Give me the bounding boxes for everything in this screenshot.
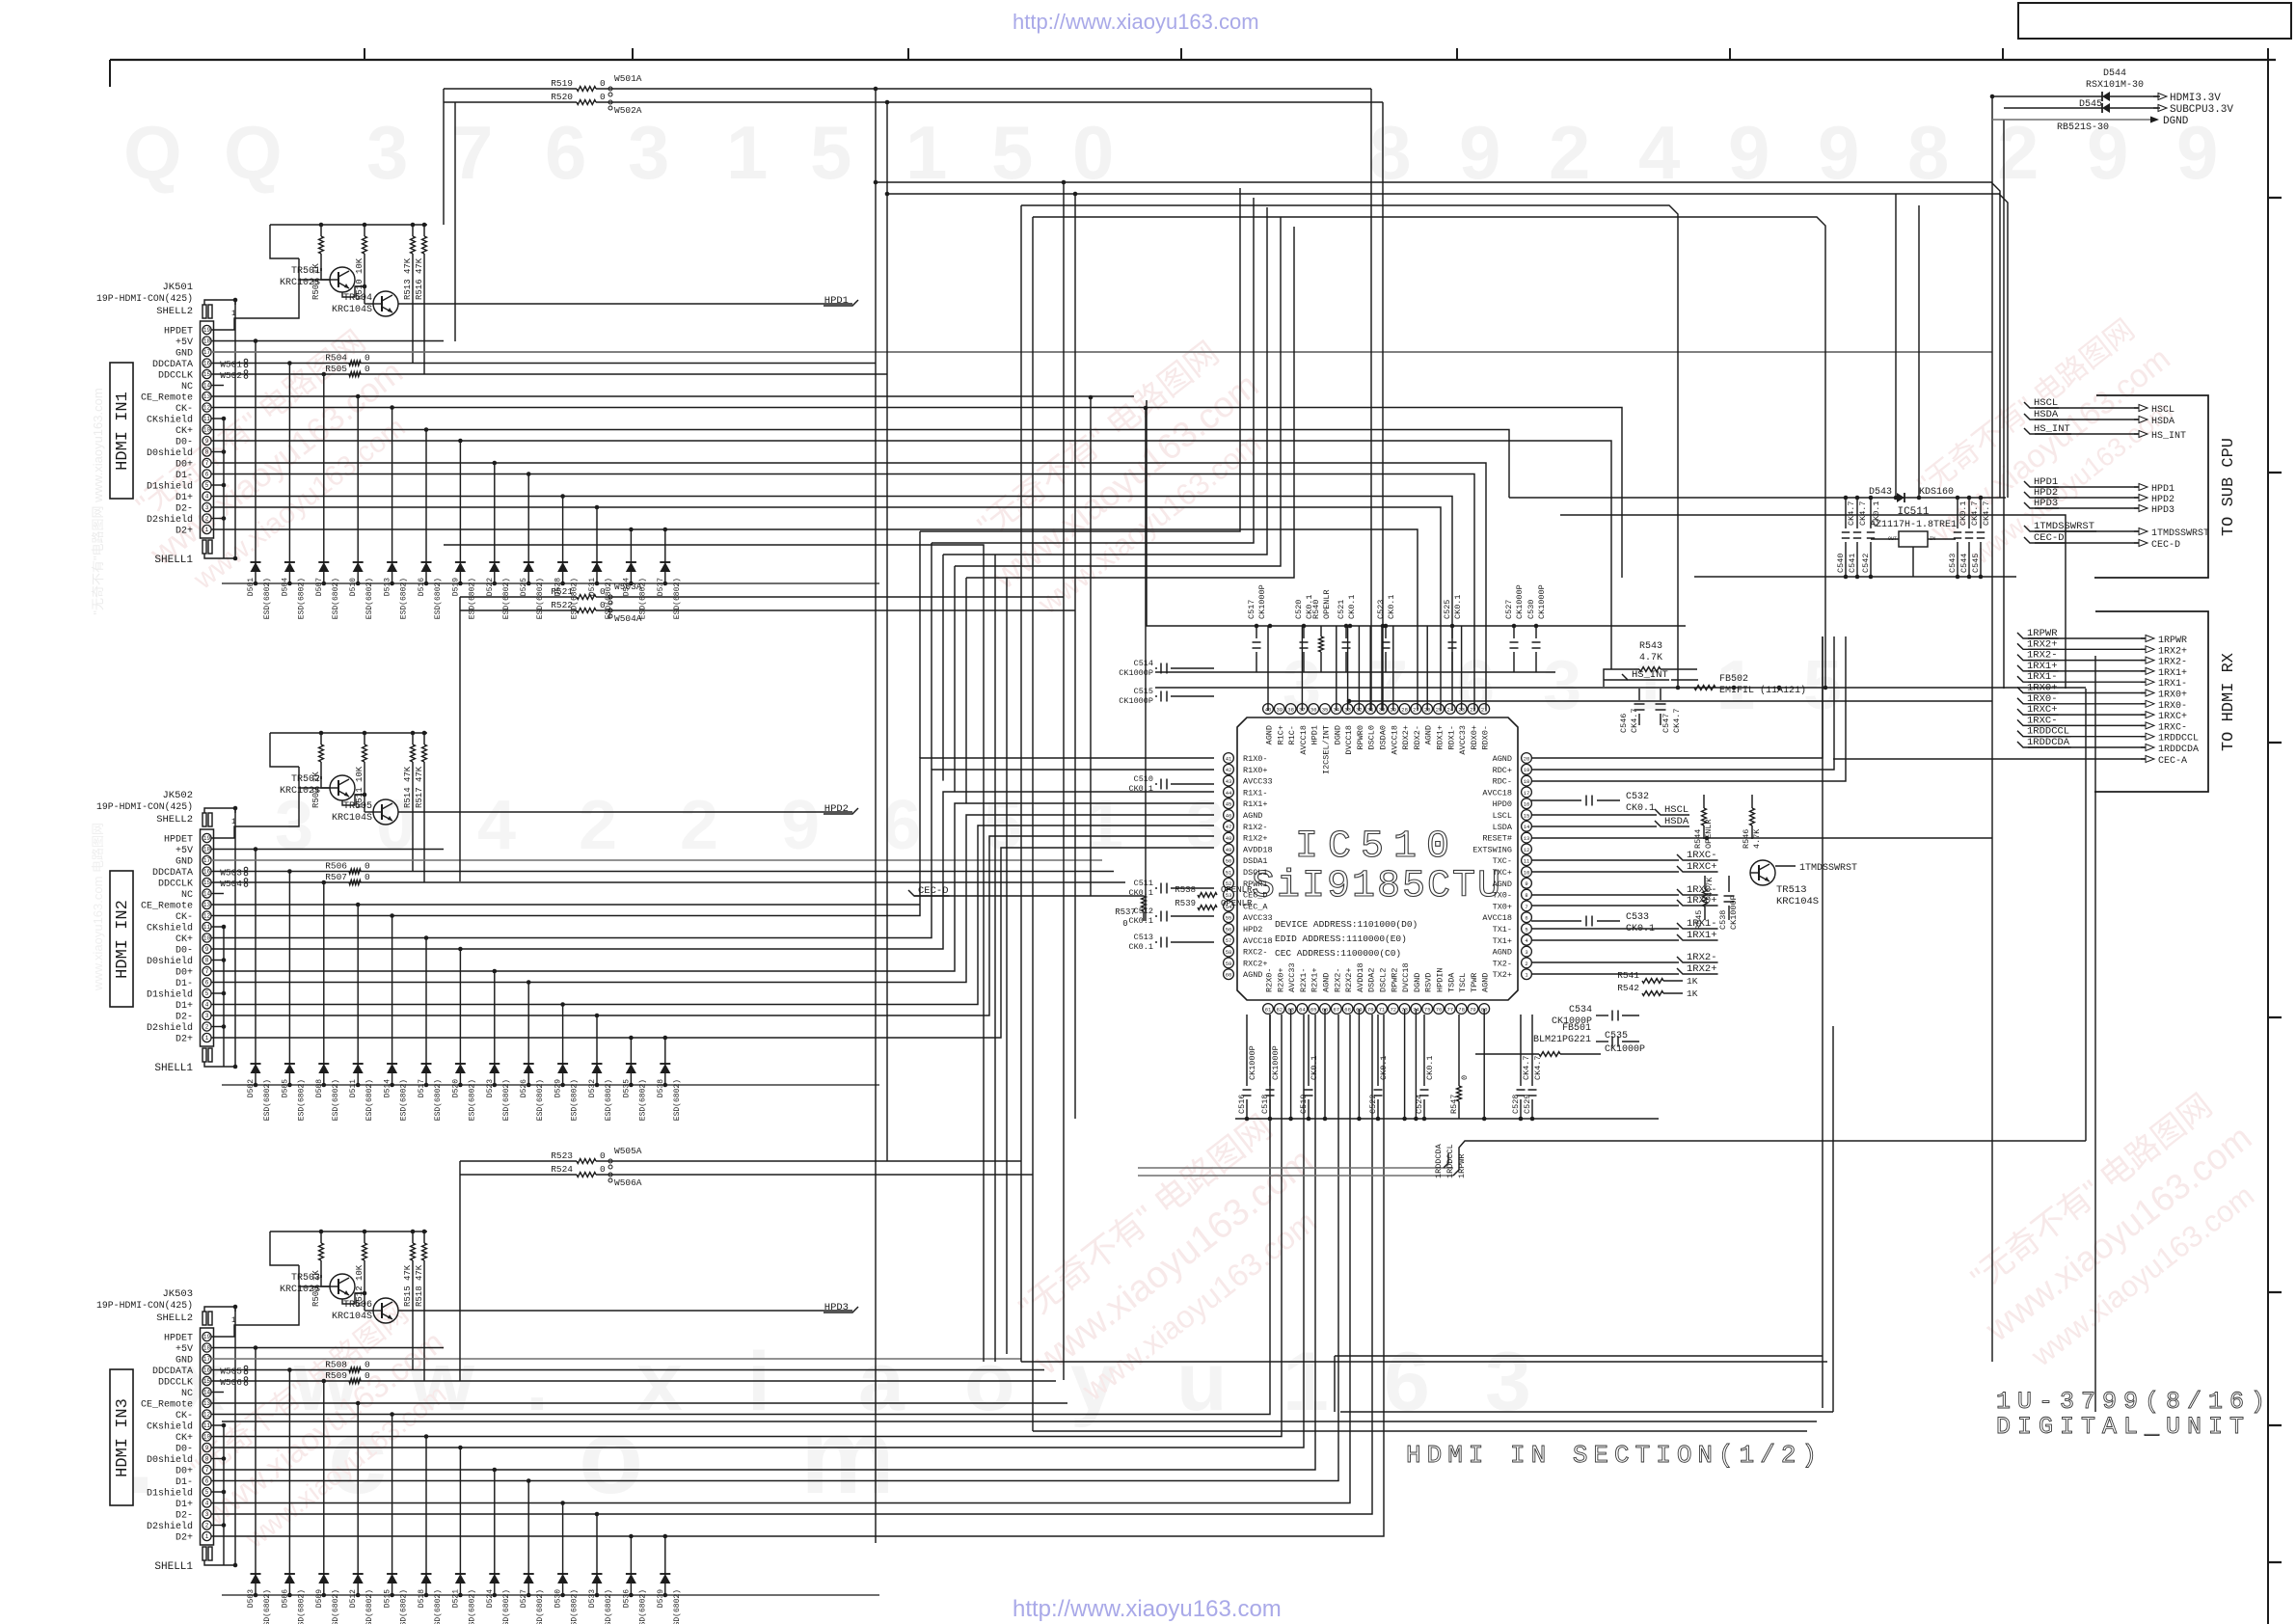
svg-text:TR502: TR502 — [291, 774, 320, 785]
esd diode D514 ESD(6802) — [384, 913, 409, 1121]
bus HS horizontals right — [1560, 515, 2066, 689]
svg-text:AVCC33: AVCC33 — [1243, 913, 1273, 923]
svg-text:DVCC18: DVCC18 — [1344, 725, 1354, 755]
resistor R514 47K — [403, 731, 415, 872]
esd diode D506 ESD(6802) — [281, 1367, 306, 1624]
svg-text:W504: W504 — [220, 879, 242, 889]
svg-text:1: 1 — [231, 818, 236, 826]
svg-text:1: 1 — [205, 527, 209, 533]
ic IC510 right pins 20..1 — [1472, 753, 1531, 981]
svg-text:17: 17 — [203, 857, 211, 864]
svg-text:C517: C517 — [1247, 600, 1256, 619]
capacitor C544 CK4.7 — [1959, 496, 1980, 580]
sheet right border — [2267, 48, 2269, 1624]
svg-text:TX0-: TX0- — [1493, 891, 1512, 901]
svg-text:SHELL1: SHELL1 — [154, 555, 193, 566]
svg-text:EXTSWING: EXTSWING — [1472, 845, 1512, 854]
svg-text:W501: W501 — [220, 360, 242, 370]
wires TR503 cluster — [211, 1232, 373, 1337]
svg-text:C546: C546 — [1619, 714, 1629, 733]
svg-text:OPENLR: OPENLR — [1221, 885, 1253, 895]
svg-text:ESD(6802): ESD(6802) — [673, 1079, 682, 1121]
wire RDC rows right of IC — [1531, 636, 1846, 781]
svg-text:W506A: W506A — [614, 1177, 642, 1188]
svg-text:R2X1+: R2X1+ — [1310, 967, 1320, 992]
svg-text:SUBCPU3.3V: SUBCPU3.3V — [2170, 104, 2233, 116]
svg-text:R538: R538 — [1175, 885, 1196, 895]
esd diode D510 ESD(6802) — [349, 394, 374, 620]
svg-text:RDX1+: RDX1+ — [1436, 725, 1445, 750]
svg-text:HSDA: HSDA — [2151, 417, 2174, 427]
svg-text:65: 65 — [1310, 1006, 1317, 1013]
svg-text:61: 61 — [1265, 1006, 1272, 1013]
nc stub JK503 — [211, 1392, 224, 1394]
svg-text:DEVICE ADDRESS:1101000(D0): DEVICE ADDRESS:1101000(D0) — [1275, 919, 1418, 930]
net flag CEC-D to sub cpu — [2024, 532, 2180, 551]
rail TR502 cluster — [270, 732, 427, 734]
svg-text:TXC-: TXC- — [1493, 856, 1512, 866]
svg-text:R545: R545 — [1694, 910, 1704, 930]
transistor TR501 KRC102S — [280, 266, 355, 292]
svg-text:AGND: AGND — [1493, 880, 1512, 889]
svg-text:15: 15 — [1524, 812, 1530, 819]
esd diode D538 ESD(6802) — [657, 1036, 682, 1122]
svg-text:1RX0+: 1RX0+ — [2027, 683, 2058, 694]
svg-text:RSX101M-30: RSX101M-30 — [2086, 80, 2144, 91]
svg-text:2: 2 — [205, 1523, 209, 1529]
rail top y727 — [1347, 699, 1992, 704]
svg-text:KDS160: KDS160 — [1919, 487, 1954, 498]
resistor R506 0 — [325, 861, 370, 874]
svg-text:DGND: DGND — [1333, 725, 1342, 744]
svg-text:EMIFIL: EMIFIL — [1719, 686, 1754, 696]
svg-text:R1X2-: R1X2- — [1243, 823, 1268, 832]
resistor R520 0 jumper — [444, 92, 1383, 104]
svg-text:CK-: CK- — [176, 1411, 193, 1421]
svg-text:18: 18 — [203, 847, 211, 853]
ic U IC510 SiI9185CTU body — [1237, 717, 1518, 1000]
svg-text:R509: R509 — [325, 1370, 347, 1381]
svg-text:17: 17 — [203, 1356, 211, 1363]
svg-text:ESD(6802): ESD(6802) — [400, 1079, 409, 1121]
svg-text:RDC-: RDC- — [1493, 777, 1512, 787]
wire +5V row IN2 — [211, 849, 444, 851]
capacitor C511 CK0.1 — [1128, 879, 1214, 898]
svg-text:R523: R523 — [551, 1150, 573, 1161]
svg-text:C528: C528 — [1511, 1095, 1521, 1114]
capacitor C520 CK0.1 — [1294, 594, 1314, 672]
svg-text:CK-: CK- — [176, 404, 193, 415]
esd diode D532 ESD(6802) — [588, 1014, 613, 1122]
svg-text:TR503: TR503 — [291, 1273, 320, 1284]
svg-text:1RDDCDA: 1RDDCDA — [1434, 1143, 1444, 1178]
resistor R537 0 — [1115, 896, 1146, 929]
svg-text:ESD(6802): ESD(6802) — [571, 1079, 580, 1121]
svg-text:R1C+: R1C+ — [1276, 725, 1285, 744]
svg-text:SHELL2: SHELL2 — [156, 306, 193, 317]
net flag HS_INT — [1604, 669, 1698, 681]
svg-text:ESD(6802): ESD(6802) — [468, 1079, 476, 1121]
svg-text:D513: D513 — [384, 578, 392, 596]
wire CE_Remote IN1 — [211, 395, 1134, 397]
svg-text:18: 18 — [1524, 778, 1530, 785]
svg-text:CK-: CK- — [176, 912, 193, 923]
svg-text:D2+: D2+ — [176, 527, 193, 537]
svg-text:D2+: D2+ — [176, 1035, 193, 1045]
svg-text:46: 46 — [1226, 812, 1232, 819]
svg-text:OPENLR: OPENLR — [1322, 589, 1332, 619]
svg-text:11: 11 — [1524, 858, 1530, 865]
esd diode D524 ESD(6802) — [486, 1468, 511, 1624]
svg-text:0: 0 — [365, 872, 370, 882]
svg-text:5: 5 — [205, 1489, 209, 1496]
ferrite FB501 BLM21PG221 — [1475, 1023, 1601, 1056]
svg-text:19P-HDMI-CON(425): 19P-HDMI-CON(425) — [96, 801, 193, 812]
svg-text:15: 15 — [203, 371, 211, 378]
svg-text:CK1000P: CK1000P — [1257, 584, 1267, 619]
svg-text:R519: R519 — [551, 78, 573, 89]
svg-text:3: 3 — [1525, 949, 1527, 956]
esd diode D530 ESD(6802) — [554, 1501, 580, 1624]
label HDMI IN3 — [110, 1369, 133, 1505]
esd diode D531 ESD(6802) — [588, 505, 613, 620]
svg-text:CK1000P: CK1000P — [1729, 895, 1739, 930]
svg-text:HPD1: HPD1 — [824, 295, 849, 307]
wire GND row IN2 — [211, 859, 1102, 861]
esd diode D519 ESD(6802) — [451, 439, 476, 620]
svg-text:DSDA2: DSDA2 — [1367, 967, 1377, 992]
nc stub JK502 — [211, 893, 224, 895]
svg-text:19P-HDMI-CON(425): 19P-HDMI-CON(425) — [96, 1300, 193, 1311]
svg-text:HPDET: HPDET — [164, 1334, 193, 1344]
svg-text:1RPWR: 1RPWR — [1457, 1153, 1467, 1178]
svg-text:DDCDATA: DDCDATA — [152, 868, 193, 879]
svg-text:AGND: AGND — [1265, 725, 1275, 744]
svg-text:16: 16 — [203, 1367, 211, 1374]
svg-text:D532: D532 — [588, 1079, 597, 1097]
svg-text:"无奇不有"电路图网 www.xiaoyu163.com: "无奇不有"电路图网 www.xiaoyu163.com — [91, 388, 105, 614]
svg-text:6: 6 — [545, 110, 586, 195]
capacitor C534 CK1000P — [1552, 1005, 1639, 1027]
svg-text:DDCDATA: DDCDATA — [152, 1367, 193, 1377]
svg-text:GND: GND — [176, 857, 193, 868]
svg-text:R1C-: R1C- — [1287, 725, 1297, 744]
esd diode D535 ESD(6802) — [622, 1036, 647, 1122]
diode D543 KDS160 — [1869, 487, 1954, 502]
svg-text:AGND: AGND — [1481, 973, 1491, 992]
svg-text:62: 62 — [1276, 1006, 1283, 1013]
net flag 1RXC- to hdmi rx — [2017, 715, 2187, 733]
svg-text:71: 71 — [1379, 1006, 1386, 1013]
resistor R542 1K — [1617, 983, 1698, 999]
svg-text:41: 41 — [1226, 755, 1232, 762]
svg-text:ESD(6802): ESD(6802) — [638, 1079, 647, 1121]
svg-text:HPD3: HPD3 — [824, 1302, 849, 1313]
svg-text:ESD(6802): ESD(6802) — [605, 1079, 613, 1121]
jumper W503 — [220, 867, 248, 878]
esd diode D517 ESD(6802) — [418, 935, 443, 1121]
svg-text:1: 1 — [726, 110, 768, 195]
watermark red diagonal stamps — [115, 307, 2287, 1564]
svg-text:CK1000P: CK1000P — [1248, 1045, 1257, 1080]
svg-text:C525: C525 — [1443, 600, 1452, 619]
svg-text:D526: D526 — [520, 1079, 528, 1097]
svg-text:3: 3 — [1543, 647, 1581, 724]
svg-text:CK0.1: CK0.1 — [1425, 1055, 1435, 1080]
svg-text:CK0.1: CK0.1 — [1128, 942, 1153, 952]
bus IN1 TMDS rows to IC top pins — [211, 408, 1622, 712]
svg-text:C529: C529 — [1523, 1095, 1532, 1114]
svg-text:CK0.1: CK0.1 — [1626, 803, 1655, 814]
svg-text:D531: D531 — [588, 578, 597, 596]
resistor R511 10K — [355, 731, 366, 808]
svg-text:AVCC18: AVCC18 — [1482, 913, 1512, 923]
svg-text:AGND: AGND — [1322, 973, 1332, 992]
svg-text:17: 17 — [203, 349, 211, 356]
svg-text:7: 7 — [1525, 904, 1527, 910]
svg-text:W502A: W502A — [614, 105, 642, 116]
svg-text:12: 12 — [203, 1412, 211, 1419]
ferrite FB502 EMIFIL(11A121) — [1694, 674, 1806, 696]
esd diode D539 ESD(6802) — [657, 1534, 682, 1624]
svg-text:9: 9 — [205, 1445, 209, 1451]
net flag CEC-D — [908, 885, 1144, 897]
net flag 1RXC+ to hdmi rx — [2017, 704, 2187, 722]
svg-text:HPDET: HPDET — [164, 327, 193, 338]
svg-text:D511: D511 — [349, 1079, 358, 1097]
net flag 1RXC+ — [1531, 861, 1718, 873]
svg-text:D509: D509 — [315, 1589, 324, 1608]
svg-text:CK0.1: CK0.1 — [1347, 594, 1357, 619]
svg-text:21: 21 — [1481, 706, 1488, 713]
capacitor C547 CK4.7 — [1656, 689, 1683, 733]
svg-text:HPD2: HPD2 — [824, 803, 849, 815]
svg-text:14: 14 — [1524, 824, 1530, 830]
svg-text:ESD(6802): ESD(6802) — [400, 1589, 409, 1624]
svg-text:W504A: W504A — [614, 613, 642, 624]
svg-text:DSCL1: DSCL1 — [1243, 868, 1268, 878]
svg-text:RB521S-30: RB521S-30 — [2057, 122, 2109, 133]
svg-text:TR513: TR513 — [1776, 884, 1807, 896]
esd diode D536 ESD(6802) — [622, 1534, 647, 1624]
svg-text:D501: D501 — [247, 578, 256, 596]
svg-text:ESD(6802): ESD(6802) — [502, 578, 511, 619]
net flag HPD1 — [398, 295, 858, 307]
sheet left border stub — [109, 60, 111, 87]
svg-text:2: 2 — [1525, 961, 1527, 967]
svg-text:D512: D512 — [349, 1589, 358, 1608]
svg-text:HPD0: HPD0 — [1493, 799, 1512, 809]
svg-text:R504: R504 — [325, 353, 347, 364]
capacitor C524 CK0.1 — [1415, 1015, 1435, 1121]
svg-text:GND: GND — [176, 1356, 193, 1367]
svg-text:D1-: D1- — [176, 979, 193, 989]
svg-text:HSCL: HSCL — [2034, 397, 2058, 409]
svg-text:CK4.7: CK4.7 — [1982, 501, 1991, 526]
svg-text:14: 14 — [203, 891, 211, 898]
esd ground bus — [222, 1084, 879, 1086]
esd diode D528 ESD(6802) — [554, 494, 580, 619]
svg-text:10: 10 — [203, 935, 211, 942]
svg-text:R513 47K: R513 47K — [403, 257, 413, 300]
svg-text:CK1000P: CK1000P — [1119, 668, 1153, 678]
esd diode D525 ESD(6802) — [520, 472, 545, 619]
net DGND arrow — [1992, 116, 2189, 127]
svg-text:0: 0 — [1460, 1075, 1470, 1080]
svg-text:C521: C521 — [1337, 600, 1346, 619]
svg-text:AGND: AGND — [1424, 725, 1434, 744]
svg-text:1TMDSSWRST: 1TMDSSWRST — [1799, 863, 1857, 874]
label HDMI IN2 — [110, 871, 133, 1007]
svg-text:JK502: JK502 — [162, 790, 193, 801]
svg-text:19: 19 — [203, 1334, 211, 1340]
svg-text:3: 3 — [205, 1013, 209, 1019]
rail C514 net y697 — [1155, 671, 1555, 673]
svg-text:C533: C533 — [1626, 912, 1649, 923]
esd diode D526 ESD(6802) — [520, 980, 545, 1121]
svg-text:D519: D519 — [451, 578, 460, 596]
svg-text:D506: D506 — [281, 1589, 289, 1608]
bus wrap loop top — [874, 180, 2008, 690]
svg-text:D535: D535 — [622, 1079, 631, 1097]
capacitor C541 CK4.7 — [1848, 496, 1868, 580]
svg-text:0: 0 — [365, 1370, 370, 1381]
net flag 1RX0- — [1531, 884, 1718, 896]
esd diode D516 ESD(6802) — [418, 427, 443, 619]
rail HDMI3.3V to IC511 — [1509, 497, 2006, 499]
svg-text:R543: R543 — [1639, 641, 1662, 652]
rail AVCC top y649 — [1147, 400, 1686, 628]
net flag 1RX2- to hdmi rx — [2017, 650, 2187, 668]
svg-text:19: 19 — [203, 835, 211, 842]
svg-text:4: 4 — [477, 787, 516, 864]
svg-text:D516: D516 — [418, 578, 426, 596]
esd diode D502 ESD(6802) — [247, 847, 272, 1121]
svg-text:13: 13 — [203, 1400, 211, 1407]
svg-text:3: 3 — [366, 110, 408, 195]
net flag 1RX0- to hdmi rx — [2017, 693, 2187, 712]
capacitor C518 CK1000P — [1260, 1015, 1281, 1121]
svg-text:5: 5 — [205, 482, 209, 489]
svg-text:D2-: D2- — [176, 1013, 193, 1023]
svg-text:HSCL: HSCL — [2151, 405, 2174, 416]
svg-text:12: 12 — [203, 913, 211, 920]
capacitor C510 CK0.1 — [1128, 774, 1214, 794]
svg-text:5: 5 — [810, 110, 851, 195]
svg-text:ESD(6802): ESD(6802) — [536, 1589, 545, 1624]
svg-text:HPD1: HPD1 — [2151, 484, 2174, 495]
svg-text:D502: D502 — [247, 1079, 256, 1097]
svg-text:SHELL1: SHELL1 — [154, 1561, 193, 1573]
svg-text:HS_INT: HS_INT — [2151, 431, 2186, 442]
svg-text:D0+: D0+ — [176, 460, 193, 471]
svg-text:14: 14 — [203, 383, 211, 390]
wire DDC rows IN3 — [211, 1369, 1044, 1371]
svg-text:4.7K: 4.7K — [1752, 828, 1762, 849]
svg-text:R1X0+: R1X0+ — [1243, 766, 1268, 775]
svg-text:16: 16 — [1524, 801, 1530, 808]
svg-text:W502: W502 — [220, 370, 242, 381]
label HDMI IN1 — [110, 363, 133, 499]
capacitor C546 CK4.7 — [1619, 689, 1645, 733]
capacitor C535 CK1000P — [1596, 1031, 1645, 1055]
bus bottom-right horizontals — [222, 1356, 1833, 1431]
svg-text:CE_Remote: CE_Remote — [141, 902, 193, 912]
capacitor C543 CK0.1 — [1948, 496, 1968, 580]
rail TR503 cluster — [270, 1231, 427, 1232]
svg-text:3: 3 — [205, 504, 209, 511]
svg-text:SiI9185CTU: SiI9185CTU — [1252, 865, 1502, 908]
svg-text:DSDA0: DSDA0 — [1379, 725, 1389, 750]
svg-text:0: 0 — [365, 1360, 370, 1370]
ic IC510 left pins 41..60 — [1224, 753, 1273, 981]
resistor R515 47K — [403, 1230, 415, 1370]
svg-text:NC: NC — [181, 382, 193, 392]
capacitor C529 CK4.7 — [1523, 1015, 1543, 1121]
svg-text:ESD(6802): ESD(6802) — [502, 1079, 511, 1121]
svg-text:C523: C523 — [1376, 600, 1386, 619]
svg-text:CK4.7: CK4.7 — [1847, 501, 1856, 526]
svg-text:3: 3 — [628, 110, 669, 195]
svg-text:AGND: AGND — [1493, 948, 1512, 958]
svg-text:45: 45 — [1226, 801, 1232, 808]
ic IC511 AZ1117H-1.8TRE1 — [1870, 506, 1957, 577]
jumper W502A — [608, 100, 642, 116]
svg-text:W503A: W503A — [614, 582, 642, 592]
net flag 1RX2+ — [1531, 963, 1718, 975]
capacitor C533 CK0.1 — [1531, 912, 1655, 934]
svg-text:CK1000P: CK1000P — [1552, 1016, 1592, 1027]
resistor R546 4.7K — [1742, 795, 1762, 849]
esd diode D508 ESD(6802) — [315, 880, 340, 1122]
svg-text:TX2+: TX2+ — [1493, 970, 1512, 980]
svg-text:R522: R522 — [551, 600, 573, 610]
svg-text:1: 1 — [205, 1533, 209, 1540]
resistor R512 10K — [355, 1230, 366, 1307]
svg-text:RSVD: RSVD — [1424, 973, 1434, 992]
resistor R503 1K — [311, 1230, 323, 1307]
bus loop power drops — [1894, 194, 1922, 500]
svg-text:ESD(6802): ESD(6802) — [502, 1589, 511, 1624]
svg-text:D505: D505 — [281, 1079, 289, 1097]
jumper W505A — [608, 1146, 642, 1169]
svg-text:D504: D504 — [281, 578, 289, 596]
svg-text:2: 2 — [205, 1024, 209, 1031]
capacitor C515 CK1000P — [1119, 687, 1214, 706]
svg-text:D525: D525 — [520, 578, 528, 596]
svg-text:DSCL2: DSCL2 — [1379, 967, 1389, 992]
net flag 1RDDCCL to hdmi rx — [2017, 726, 2199, 744]
svg-text:R2X1-: R2X1- — [1299, 967, 1309, 992]
transistor TR502 KRC102S — [280, 774, 355, 800]
svg-text:JK503: JK503 — [162, 1288, 193, 1300]
svg-text:56: 56 — [1226, 926, 1232, 933]
svg-text:6: 6 — [205, 1478, 209, 1485]
svg-text:78: 78 — [1458, 1006, 1465, 1013]
wire SHELL1 shield bus JK503 — [204, 1560, 235, 1565]
svg-text:AVCC18: AVCC18 — [1299, 725, 1309, 755]
jumper W505 — [220, 1366, 248, 1376]
svg-text:38: 38 — [1287, 706, 1294, 713]
svg-text:13: 13 — [1524, 835, 1530, 842]
rail IC511 ground — [1694, 576, 2016, 578]
svg-text:CK0.1: CK0.1 — [1453, 594, 1463, 619]
esd diode D507 ESD(6802) — [315, 372, 340, 620]
svg-text:LSCL: LSCL — [1493, 811, 1512, 821]
svg-text:HPD2: HPD2 — [2151, 495, 2174, 505]
svg-text:HPD3: HPD3 — [2151, 505, 2174, 516]
svg-text:10: 10 — [1524, 869, 1530, 876]
